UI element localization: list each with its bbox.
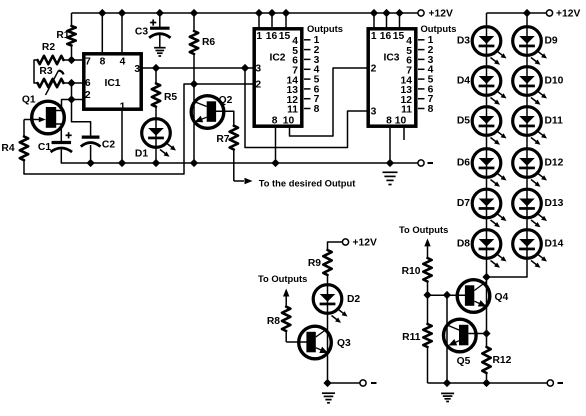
label Q4: [495, 292, 509, 303]
wire Q4 collector-emitter: [486, 277, 488, 334]
label R8: [267, 316, 280, 327]
label IC1: [104, 78, 120, 89]
label D2: [347, 294, 360, 305]
svg-text:To Outputs: To Outputs: [258, 273, 307, 284]
LED D12: [513, 149, 547, 187]
svg-text:R11: R11: [402, 332, 421, 343]
wire Q3 base: [286, 341, 306, 343]
svg-text:Q5: Q5: [457, 356, 471, 367]
label Q1: [22, 94, 36, 105]
transistor Q2: [191, 96, 224, 129]
transistor Q4: [457, 280, 490, 313]
node R12 gnd: [482, 379, 490, 387]
wire R4 bottom: [24, 84, 184, 174]
label IC2: [269, 52, 285, 63]
pin label 3 IC1: [134, 64, 140, 75]
wire pin2: [72, 99, 84, 101]
wire pin3 clock line: [142, 67, 254, 69]
resistor R11: [423, 295, 431, 383]
ground right: [441, 393, 454, 401]
label R12: [493, 355, 512, 366]
transistor Q3: [299, 326, 332, 359]
svg-text:D10: D10: [545, 75, 564, 86]
resistor R5: [152, 68, 160, 119]
svg-text:D3: D3: [457, 35, 470, 46]
label R1: [56, 30, 69, 41]
label D1: [135, 148, 148, 159]
node Q3 emitter gnd: [323, 379, 331, 387]
label D12: [545, 157, 564, 168]
svg-text:16: 16: [380, 31, 392, 42]
svg-text:D14: D14: [545, 238, 564, 249]
node pin1 gnd: [118, 159, 126, 167]
LED D10: [513, 67, 547, 105]
pin label 2 IC3: [371, 63, 377, 74]
svg-text:D4: D4: [457, 75, 470, 86]
svg-text:R3: R3: [39, 66, 52, 77]
resistor R3 (trimmer): [38, 79, 72, 87]
label Q2: [219, 95, 233, 106]
pin label 1 IC2: [256, 31, 262, 42]
transistor Q5: [444, 319, 477, 352]
LED D2: [313, 285, 347, 323]
terminal +12V LED: [546, 8, 580, 19]
label R5: [164, 92, 177, 103]
svg-text:10: 10: [395, 115, 407, 126]
wire LED col2 top: [526, 13, 528, 28]
wire pin8 to rail: [101, 13, 103, 53]
label R7: [216, 134, 229, 145]
pin label 8 IC3: [386, 115, 392, 126]
wire C1 to ground rail: [60, 150, 62, 163]
label D13: [545, 198, 564, 209]
svg-text:8: 8: [100, 56, 106, 67]
label IC3: [383, 52, 399, 63]
svg-text:7: 7: [85, 56, 91, 67]
wire R9 top: [328, 242, 343, 250]
capacitor C3: [149, 13, 171, 48]
svg-text:IC1: IC1: [104, 78, 120, 89]
pin label 10 IC2: [283, 115, 295, 126]
IC3 box: [368, 29, 416, 126]
LED D13: [513, 189, 547, 227]
wire LED col1 seg3: [486, 176, 488, 191]
svg-text:10: 10: [283, 115, 295, 126]
pin label 16 IC3: [380, 31, 392, 42]
wire Q5 base: [469, 333, 487, 335]
terminal minus right: [547, 380, 563, 386]
label R9: [308, 258, 321, 269]
wire +12V LED rail: [487, 12, 547, 14]
svg-text:4: 4: [120, 56, 126, 67]
wire IC3 pin15 rail: [399, 13, 401, 28]
node Q2 gnd: [190, 159, 198, 167]
wire LED col2 seg2: [526, 134, 528, 150]
wire pin7: [72, 59, 84, 61]
node IC2 pin15: [282, 9, 290, 17]
label Outputs IC2: [307, 23, 343, 34]
node pin2 junction: [67, 95, 75, 103]
svg-text:R2: R2: [42, 42, 55, 53]
svg-text:8: 8: [272, 115, 278, 126]
node C3 top: [156, 9, 164, 17]
wire IC2 pin10 to IC3 pin2: [290, 68, 368, 136]
resistor R1: [67, 13, 75, 60]
wire IC2 pin8 gnd: [275, 128, 277, 163]
wire C2 bottom: [90, 145, 92, 163]
wire LED col1 seg0: [486, 54, 488, 68]
node IC3 pin1: [370, 9, 378, 17]
svg-text:1: 1: [371, 31, 377, 42]
transistor Q1: [24, 100, 72, 143]
node pin8 rail: [98, 9, 106, 17]
terminal +12V main: [418, 8, 453, 19]
svg-text:C2: C2: [102, 139, 115, 150]
wire LED col1 top: [486, 13, 488, 28]
label D3: [457, 35, 470, 46]
node clock branch: [241, 64, 249, 72]
terminal +12V Q3: [342, 237, 377, 248]
wire IC3 pin10 stub: [403, 128, 405, 140]
svg-text:+12V: +12V: [429, 8, 453, 19]
terminal minus Q3: [360, 380, 377, 386]
svg-text:11: 11: [401, 105, 412, 116]
label D14: [545, 238, 564, 249]
label D6: [457, 157, 470, 168]
svg-text:2: 2: [371, 63, 377, 74]
wire Q4 base: [428, 294, 466, 296]
wire LED col2 seg3: [526, 176, 528, 191]
pin label 3 IC3: [371, 106, 377, 117]
svg-text:Outputs: Outputs: [421, 23, 457, 34]
wire pin6: [72, 82, 84, 84]
svg-text:R6: R6: [202, 37, 215, 48]
svg-text:D1: D1: [135, 148, 148, 159]
svg-text:15: 15: [279, 31, 291, 42]
pin label 2: [85, 90, 91, 101]
wire +12V top rail: [72, 12, 422, 14]
svg-text:1: 1: [256, 31, 262, 42]
pin label 15 IC3: [393, 31, 405, 42]
wire bottom rail right: [428, 382, 548, 384]
node IC2 pin16: [268, 9, 276, 17]
label Q5: [457, 356, 471, 367]
svg-text:8: 8: [386, 115, 392, 126]
node pin4 rail: [118, 9, 126, 17]
label R4: [1, 143, 14, 154]
svg-text:To Outputs: To Outputs: [399, 224, 448, 235]
svg-text:R9: R9: [308, 258, 321, 269]
svg-text:2: 2: [255, 80, 261, 91]
svg-text:D5: D5: [457, 115, 470, 126]
node pin7 junction: [67, 56, 75, 64]
svg-text:R4: R4: [1, 143, 14, 154]
wire pin2 IC2: [184, 83, 254, 85]
svg-text:2: 2: [85, 90, 91, 101]
pin label 1: [120, 102, 126, 113]
node pin6 junction: [67, 79, 75, 87]
IC1 box: [84, 54, 141, 109]
svg-text:D6: D6: [457, 157, 470, 168]
wire to output arrow: [234, 178, 253, 184]
svg-text:3: 3: [134, 64, 140, 75]
wire D1 to gnd: [155, 147, 157, 163]
trimmer arrow R3: [46, 71, 64, 96]
svg-text:R5: R5: [164, 92, 177, 103]
node R5 top: [152, 64, 160, 72]
node Q4 base branch: [443, 291, 451, 299]
label Outputs IC3: [421, 23, 457, 34]
resistor R8: [282, 307, 290, 342]
label R2: [42, 42, 55, 53]
LED D6: [472, 149, 506, 187]
wire IC3 pin16 rail: [386, 13, 388, 28]
svg-text:Q3: Q3: [337, 338, 351, 349]
wire IC3 pin8 gnd: [389, 128, 391, 163]
wire LED col2 seg0: [526, 54, 528, 68]
node IC3 pin8 gnd: [386, 159, 394, 167]
resistor R6: [190, 13, 198, 84]
svg-text:+12V: +12V: [353, 237, 377, 248]
wire output arrow right: [424, 238, 430, 258]
label To the desired Output: [259, 178, 356, 189]
svg-text:3: 3: [255, 63, 261, 74]
wire LED col1 seg4: [486, 217, 488, 232]
resistor R4: [20, 120, 28, 175]
label R10: [402, 266, 421, 277]
label D8: [457, 238, 470, 249]
label D10: [545, 75, 564, 86]
pin label 1 IC3: [371, 31, 377, 42]
IC2 right pin labels: [287, 36, 299, 116]
IC3 right pin labels: [401, 36, 413, 116]
node D1 gnd: [152, 159, 160, 167]
wire IC3 pin1 rail: [373, 13, 375, 28]
pin label 16 IC2: [266, 31, 278, 42]
LED D11: [513, 107, 547, 145]
svg-text:1: 1: [120, 102, 126, 113]
pin label 2 IC2: [255, 80, 261, 91]
label C1: [38, 142, 51, 153]
pin label 8 IC2: [272, 115, 278, 126]
wire pin1 to ground: [121, 111, 123, 163]
label R3: [39, 66, 52, 77]
label D5: [457, 115, 470, 126]
node R6 bottom: [190, 80, 198, 88]
wire LED col2 seg4: [526, 217, 528, 232]
pin label 3 IC2: [255, 63, 261, 74]
label R6: [202, 37, 215, 48]
terminal minus left: [418, 160, 433, 166]
label To Outputs Q3: [258, 273, 307, 284]
node C2-gnd: [87, 159, 95, 167]
label D7: [457, 198, 470, 209]
svg-text:6: 6: [85, 78, 91, 89]
IC3 output numbers: [428, 35, 434, 115]
svg-text:D12: D12: [545, 157, 564, 168]
LED D8: [472, 230, 506, 268]
resistor R7: [230, 126, 238, 181]
svg-text:D13: D13: [545, 198, 564, 209]
svg-text:IC3: IC3: [383, 52, 399, 63]
LED D7: [472, 189, 506, 227]
IC2 output ticks: [304, 40, 311, 109]
label D9: [545, 35, 558, 46]
wire IC2 pin15 rail: [285, 13, 287, 28]
ground C3: [154, 48, 166, 56]
label C3: [135, 26, 148, 37]
wire LED col1 bottom: [486, 257, 488, 277]
svg-text:D11: D11: [545, 115, 564, 126]
wire Q3 gnd to terminal: [328, 382, 361, 384]
wire LED col1 seg2: [486, 134, 488, 150]
label Q3: [337, 338, 351, 349]
wire pin4 to rail: [121, 13, 123, 53]
svg-text:D8: D8: [457, 238, 470, 249]
label D4: [457, 75, 470, 86]
svg-text:D9: D9: [545, 35, 558, 46]
LED D1: [142, 119, 176, 157]
capacitor C2: [81, 137, 101, 147]
label R11: [402, 332, 421, 343]
ground IC3: [383, 172, 398, 184]
pin label 10 IC3: [395, 115, 407, 126]
wire IC2 pin1 rail: [258, 13, 260, 28]
wire D2 to Q3: [327, 313, 329, 383]
IC2 box: [254, 29, 302, 126]
svg-text:R1: R1: [56, 30, 69, 41]
wire ground rail: [61, 162, 418, 164]
wire clock to IC3 pin3: [245, 68, 367, 148]
node LED column bottom: [482, 273, 490, 281]
wire R2-R3 loop: [34, 60, 38, 83]
wire output arrow Q3: [283, 289, 289, 307]
svg-text:Q1: Q1: [22, 94, 36, 105]
svg-text:R12: R12: [493, 355, 512, 366]
svg-text:C3: C3: [135, 26, 148, 37]
LED D4: [472, 67, 506, 105]
wire Q2 emitter line: [193, 84, 195, 163]
wire IC2 pin16 rail: [271, 13, 273, 28]
node R12 top: [482, 329, 490, 337]
node R6 top: [190, 9, 198, 17]
wire LED col1 seg1: [486, 94, 488, 108]
label D11: [545, 115, 564, 126]
wire Q5 collector line: [446, 295, 448, 383]
LED D3: [472, 27, 506, 65]
resistor R9: [323, 250, 331, 285]
resistor R10: [423, 258, 431, 295]
pin label 7: [85, 56, 91, 67]
node IC3 pin16: [382, 9, 390, 17]
pin label 6: [85, 78, 91, 89]
svg-text:R8: R8: [267, 316, 280, 327]
svg-text:Q4: Q4: [495, 292, 509, 303]
svg-text:D2: D2: [347, 294, 360, 305]
svg-text:11: 11: [287, 105, 298, 116]
pin label 8: [100, 56, 106, 67]
IC3 output ticks: [418, 40, 425, 109]
LED D9: [513, 27, 547, 65]
label To Outputs right: [399, 224, 448, 235]
node R10 bottom: [423, 291, 431, 299]
svg-text:8: 8: [428, 104, 434, 115]
capacitor C1: [51, 132, 73, 152]
LED D14: [513, 230, 547, 268]
svg-text:C1: C1: [38, 142, 51, 153]
wire pin2 to C2: [72, 100, 91, 138]
svg-text:Q2: Q2: [219, 95, 233, 106]
wire LED col2 seg1: [526, 94, 528, 108]
svg-text:R10: R10: [402, 266, 421, 277]
node Q5 gnd: [443, 379, 451, 387]
pin label 4: [120, 56, 126, 67]
wire LED col2 bottom: [487, 257, 528, 277]
svg-text:To the desired Output: To the desired Output: [259, 178, 356, 189]
resistor R2: [34, 56, 72, 64]
pin label 15 IC2: [279, 31, 291, 42]
wire pin6-pin2 tie: [71, 83, 73, 100]
LED D5: [472, 107, 506, 145]
resistor R12: [482, 334, 490, 384]
wire Q2 base to R7: [216, 111, 234, 125]
label C2: [102, 139, 115, 150]
node IC3 pin15: [395, 9, 403, 17]
IC2 output numbers: [314, 35, 320, 115]
svg-text:IC2: IC2: [269, 52, 285, 63]
svg-text:D7: D7: [457, 198, 470, 209]
svg-text:+12V: +12V: [556, 8, 580, 19]
svg-text:Outputs: Outputs: [307, 23, 343, 34]
node LED col2 top: [523, 9, 531, 17]
svg-text:15: 15: [393, 31, 405, 42]
node IC2 pin1: [255, 9, 263, 17]
node IC2 pin8 gnd: [271, 159, 279, 167]
svg-text:R7: R7: [216, 134, 229, 145]
ground Q3: [322, 393, 335, 403]
svg-text:16: 16: [266, 31, 278, 42]
svg-text:8: 8: [314, 104, 320, 115]
svg-text:3: 3: [371, 106, 377, 117]
